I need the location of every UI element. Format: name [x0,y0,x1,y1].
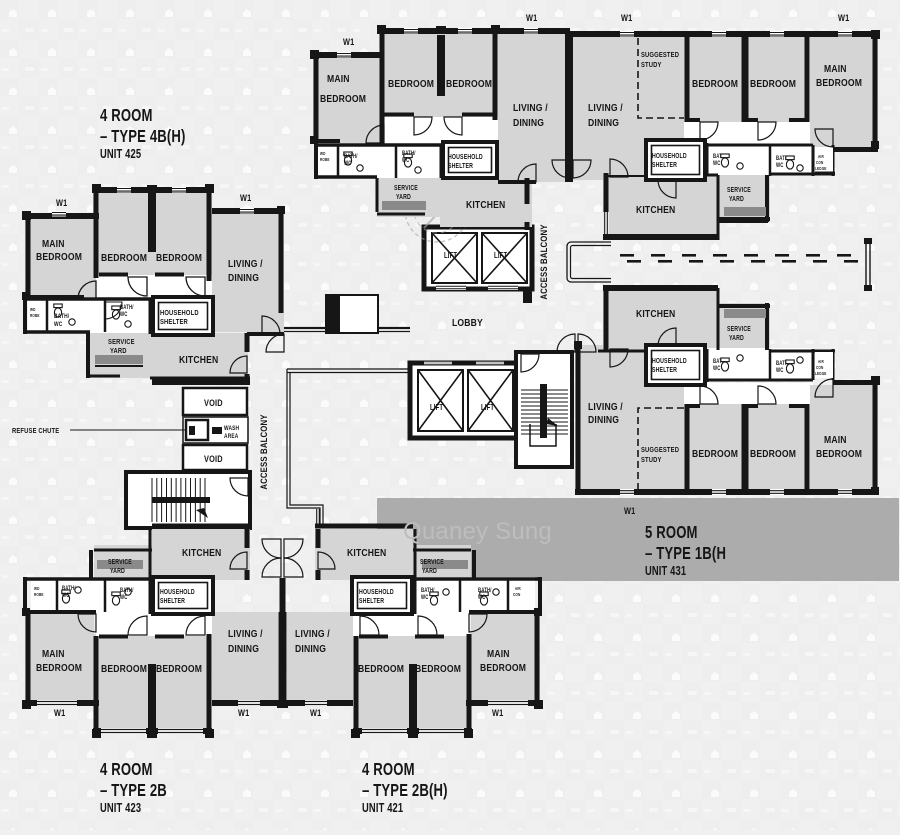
unit 421 washing rack [422,560,468,569]
svg-text:LEDGE: LEDGE [815,370,827,376]
svg-text:STUDY: STUDY [641,61,662,69]
svg-text:KITCHEN: KITCHEN [636,204,675,216]
svg-text:YARD: YARD [422,567,437,575]
svg-text:HOUSEHOLD: HOUSEHOLD [652,152,687,160]
lift block upper [424,227,532,289]
unit 431 living/dining [575,345,684,493]
unit 425 bedroom block [93,187,212,278]
unit R bath fixtures [721,154,729,167]
svg-text:UNIT 423: UNIT 423 [100,802,141,816]
svg-text:BEDROOM: BEDROOM [692,448,738,460]
svg-text:WC: WC [120,311,128,318]
unit T kitchen walls [525,178,530,204]
svg-text:ROBE: ROBE [320,156,330,162]
svg-text:HOUSEHOLD: HOUSEHOLD [359,588,394,596]
unit R closet [815,147,833,173]
access balcony west rail [290,372,323,528]
svg-text:LIFT: LIFT [430,404,444,412]
unit R windows [620,31,634,37]
svg-text:HOUSEHOLD: HOUSEHOLD [448,153,483,161]
svg-text:BEDROOM: BEDROOM [415,663,461,675]
lift block lower [410,363,518,438]
svg-text:W1: W1 [492,708,504,718]
east corridor rail [567,242,611,282]
east corridor end window [866,243,870,285]
unit T main bedroom walls [313,52,382,58]
corridor top wall [284,327,410,329]
unit 421 kitchen door arc [318,552,335,569]
unit 425 washing rack [95,355,143,364]
svg-text:SHELTER: SHELTER [448,162,473,170]
unit 423 bath fixtures [62,590,70,603]
svg-text:SERVICE: SERVICE [420,558,444,566]
unit R washing rack [724,207,766,216]
svg-text:LIFT: LIFT [494,252,508,260]
svg-text:MAIN: MAIN [487,648,510,660]
unit 421 service yard walls [413,549,471,552]
svg-text:BEDROOM: BEDROOM [816,448,862,460]
svg-text:HOUSEHOLD: HOUSEHOLD [160,588,195,596]
unit 431 entry wall [598,350,646,353]
svg-text:SERVICE: SERVICE [727,325,751,333]
svg-text:STUDY: STUDY [641,456,662,464]
svg-text:WC: WC [776,367,784,374]
svg-text:W1: W1 [54,708,66,718]
unit 425 household shelter [153,297,213,335]
unit 431 closet [815,352,833,378]
svg-text:BEDROOM: BEDROOM [36,662,82,674]
svg-text:CON: CON [816,364,823,370]
stair shaft rail [540,384,547,438]
unit 421 entry arcs [284,539,303,558]
unit 431 entry doors [578,334,596,352]
svg-text:DINING: DINING [295,643,326,655]
unit R household shelter [646,140,705,180]
unit 423 service yard walls [94,549,152,552]
unit 421 bath row [413,577,535,614]
unit 423 washing rack [97,560,143,569]
unit T washing rack [382,201,426,210]
svg-text:WC: WC [62,592,70,599]
unit 431 suggested study dashed [638,408,684,490]
unit T service yard [377,178,440,217]
unit 421 bath partitions [353,577,540,581]
svg-text:HOUSEHOLD: HOUSEHOLD [652,357,687,365]
svg-text:WC: WC [120,594,128,601]
svg-text:HOUSEHOLD: HOUSEHOLD [160,309,199,317]
unit T household shelter [443,142,497,178]
unit 425 bedroom door arcs [128,277,147,296]
svg-text:YARD: YARD [729,195,744,203]
svg-text:BEDROOM: BEDROOM [692,78,738,90]
svg-text:KITCHEN: KITCHEN [466,199,505,211]
svg-text:YARD: YARD [110,567,125,575]
unit 421 living walls [284,700,353,706]
unit 421 windows [488,700,528,706]
unit 425 bedroom block walls [93,187,212,193]
unit T bath partitions [316,143,441,147]
unit R door arcs [700,122,718,140]
svg-text:DINING: DINING [228,643,259,655]
unit 423 kitchen door arc [230,552,247,569]
unit 421 main bedroom walls [535,612,540,706]
svg-text:LIVING /: LIVING / [295,628,330,640]
svg-text:WD: WD [320,150,326,156]
unit R entry doors [552,160,570,178]
unit 423 : 4-room type 2B [22,524,285,739]
unit 423 living/dining [212,612,278,703]
unit 423 main bedroom walls [26,612,31,706]
unit T kitchen [440,178,532,227]
stair shaft door arc [521,354,539,372]
svg-text:ACCESS BALCONY: ACCESS BALCONY [258,414,269,489]
unit T bath fixtures [344,152,352,165]
svg-text:MAIN: MAIN [824,63,847,75]
svg-text:BEDROOM: BEDROOM [750,448,796,460]
svg-text:ACCESS BALCONY: ACCESS BALCONY [538,224,549,299]
unit 431 hallway [684,383,813,404]
unit 431 household shelter [646,345,705,385]
unit 425 bath row floor [28,297,153,333]
unit T bedroom block walls [379,28,498,34]
unit R living/dining [573,31,684,180]
svg-text:4 ROOM: 4 ROOM [100,760,153,779]
unit T bath row [316,143,441,178]
unit 423 kitchen [152,529,250,580]
svg-text:DINING: DINING [513,117,544,129]
unit 425 main bedroom [25,213,99,300]
svg-text:ROBE: ROBE [34,591,44,597]
unit T living/dining [498,31,567,182]
unit 421 service yard [413,545,471,580]
svg-text:LOBBY: LOBBY [452,317,483,329]
svg-text:SERVICE: SERVICE [108,338,135,346]
svg-text:WD: WD [34,585,40,591]
unit R bath partitions [707,144,813,147]
svg-text:BEDROOM: BEDROOM [101,252,147,264]
svg-text:W1: W1 [310,708,322,718]
unit 423 door arcs [128,616,147,635]
svg-text:SERVICE: SERVICE [394,184,418,192]
lower staircase block [126,472,250,528]
svg-text:WASH: WASH [224,425,239,432]
svg-text:WC: WC [421,594,429,601]
unit 431 washing rack [724,309,766,318]
unit 423 bath row [31,577,153,614]
unit R wall between bedrooms [685,34,690,122]
svg-text:WC: WC [713,365,721,372]
unit top-right : 5-room [552,13,880,240]
svg-text:CON: CON [513,591,520,597]
unit 421 bedroom block walls [354,636,359,734]
wash area [183,417,248,443]
svg-text:AIR: AIR [818,153,824,159]
svg-text:YARD: YARD [396,193,411,201]
svg-text:AIR: AIR [818,358,824,364]
unit 431 main bedroom [810,385,878,492]
unit T living walls [498,28,570,34]
svg-text:BEDROOM: BEDROOM [156,663,202,675]
unit R bedroom bottoms [687,118,700,122]
svg-text:BATH/: BATH/ [344,153,358,160]
unit T bedroom block [382,28,498,120]
svg-text:UNIT 421: UNIT 421 [362,802,403,816]
svg-text:4 ROOM: 4 ROOM [100,106,153,125]
svg-text:BEDROOM: BEDROOM [358,663,404,675]
staircase rail [152,497,210,503]
unit 421 living/dining [287,612,353,703]
svg-text:SUGGESTED: SUGGESTED [641,446,679,454]
svg-text:SERVICE: SERVICE [108,558,132,566]
unit 423 living walls [212,700,284,706]
svg-text:BEDROOM: BEDROOM [388,78,434,90]
stair shaft lower U [530,424,556,446]
svg-text:KITCHEN: KITCHEN [179,354,218,366]
svg-text:MAIN: MAIN [824,434,847,446]
svg-text:BEDROOM: BEDROOM [156,252,202,264]
unit R bath row [707,143,813,175]
unit R corridor wall [607,175,646,177]
unit 431 : 5-room type 1B(H) [557,285,880,495]
unit 431 service yard [718,303,770,350]
unit R bedroom 2 [745,34,805,122]
svg-text:WC: WC [776,162,784,169]
svg-text:LEDGE: LEDGE [815,165,827,171]
svg-text:MAIN: MAIN [42,238,65,250]
svg-text:BATH/: BATH/ [120,304,134,311]
svg-text:AIR: AIR [515,585,521,591]
lift 4 [468,370,513,431]
svg-text:SHELTER: SHELTER [359,597,384,605]
svg-text:DINING: DINING [588,414,619,426]
unit 425 : 4-room type 4B(H) [22,184,285,385]
unit 425 service yard walls [86,333,90,378]
unit R hallway [684,122,813,143]
svg-text:REFUSE CHUTE: REFUSE CHUTE [12,427,60,435]
svg-text:BEDROOM: BEDROOM [101,663,147,675]
unit 431 bath fixtures [721,358,729,371]
svg-text:WC: WC [713,160,721,167]
unit 423 household shelter [153,577,213,614]
void upper [183,388,247,415]
unit T service yard walls [376,178,379,212]
unit 423 main bedroom [25,612,94,703]
unit 431 kitchen walls [604,288,609,350]
unit 431 bath row [707,348,813,380]
unit 431 bedroom 2 [745,404,805,492]
svg-text:BATH/: BATH/ [120,587,134,594]
unit R right wall [873,34,878,147]
unit 421 door arcs [418,616,437,635]
unit 431 right wall [873,380,878,492]
svg-text:WD: WD [30,306,36,312]
svg-text:BATH/: BATH/ [421,587,435,594]
duct box [326,295,378,333]
svg-text:Quaney Sung: Quaney Sung [403,518,552,545]
svg-text:SUGGESTED: SUGGESTED [641,51,679,59]
unit R kitchen [603,173,718,237]
svg-text:LIVING /: LIVING / [228,628,263,640]
unit 431 windows [620,489,634,495]
svg-text:BEDROOM: BEDROOM [36,251,82,263]
unit 421 bedroom block [354,634,471,734]
svg-text:DINING: DINING [228,272,259,284]
svg-text:LIFT: LIFT [481,404,495,412]
unit 425 kitchen door arc [230,356,247,373]
unit 425 kitchen walls [150,377,250,380]
unit 423 kitchen walls [152,524,250,529]
svg-text:SHELTER: SHELTER [652,161,677,169]
unit 421 kitchen [315,529,413,580]
svg-text:BATH/: BATH/ [62,585,76,592]
unit R suggested study dashed [638,38,684,118]
unit T door arcs [414,117,432,135]
unit 425 kitchen [152,333,248,382]
watermark band [377,498,899,581]
svg-text:BEDROOM: BEDROOM [446,78,492,90]
svg-text:KITCHEN: KITCHEN [347,547,386,559]
svg-text:WC: WC [344,160,352,167]
unit 425 south wall at entry [247,332,284,336]
unit 431 left wall [576,345,581,495]
svg-text:W1: W1 [240,193,252,203]
unit top-centre : 4-room [310,13,573,230]
svg-text:BATH/: BATH/ [402,150,416,157]
unit R bedroom 1 [684,34,745,122]
unit 431 bedroom 1 [684,404,745,492]
unit 421 household shelter [352,577,412,614]
east corridor window ticks [620,254,634,257]
svg-text:LIVING /: LIVING / [588,102,623,114]
unit T windows [337,52,351,58]
unit 425 bath partition walls [25,297,212,301]
svg-text:DINING: DINING [588,117,619,129]
unit 425 living/dining [212,208,284,332]
svg-text:– TYPE 4B(H): – TYPE 4B(H) [100,127,186,146]
unit 425 hallway [96,275,212,298]
svg-text:SHELTER: SHELTER [160,597,185,605]
unit 423 entry arcs [262,539,281,558]
svg-text:WC: WC [54,321,62,328]
unit R kitchen walls [604,173,609,240]
svg-text:VOID: VOID [204,398,223,408]
bottom entry arcs units 423/421 [280,578,286,614]
svg-text:SHELTER: SHELTER [652,366,677,374]
unit 425 bedroom windows [52,211,66,217]
svg-text:W1: W1 [238,708,250,718]
unit 425 entry door arcs [262,316,280,334]
unit 423 bedroom block walls [94,636,99,734]
svg-text:BEDROOM: BEDROOM [320,93,366,105]
unit 423 windows [37,700,77,706]
svg-text:LIVING /: LIVING / [588,401,623,413]
svg-text:– TYPE 2B: – TYPE 2B [100,781,167,800]
unit 423 bedroom block [94,634,211,734]
lift 3 [418,370,463,431]
svg-text:YARD: YARD [110,347,127,355]
unit 431 bottom wall [575,489,878,495]
unit 431 kitchen [603,288,718,350]
svg-text:5 ROOM: 5 ROOM [645,523,698,542]
svg-text:KITCHEN: KITCHEN [182,547,221,559]
svg-text:W1: W1 [526,13,538,23]
svg-text:– TYPE 1B(H: – TYPE 1B(H [645,544,726,563]
svg-text:AREA: AREA [224,433,238,440]
unit R service yard [718,175,770,222]
unit 423 bath partitions [25,577,212,581]
unit R top wall [573,31,878,37]
svg-text:VOID: VOID [204,454,223,464]
svg-text:LIVING /: LIVING / [228,258,263,270]
unit 423 service yard [94,545,152,580]
stair shaft [516,352,572,467]
refuse chute box [186,420,208,440]
svg-text:LIVING /: LIVING / [513,102,548,114]
svg-text:BATH/: BATH/ [478,587,492,594]
unit R main bedroom [810,34,878,147]
unit R service yard bottom [718,221,768,223]
svg-text:SERVICE: SERVICE [727,186,751,194]
svg-text:CON: CON [816,159,823,165]
unit 421 kitchen walls [315,524,413,529]
unit 425 main bedroom walls [25,213,99,219]
svg-text:SHELTER: SHELTER [160,318,188,326]
unit 431 main bedroom top [833,380,878,385]
svg-text:MAIN: MAIN [42,648,65,660]
unit 421 bath fixtures [430,592,438,605]
corridor bottom rail to lobby [287,369,410,373]
svg-text:W1: W1 [621,13,633,23]
svg-text:MAIN: MAIN [327,73,350,85]
svg-text:UNIT 425: UNIT 425 [100,148,141,162]
svg-text:– TYPE 2B(H): – TYPE 2B(H) [362,781,448,800]
svg-text:W1: W1 [838,13,850,23]
svg-text:ROBE: ROBE [30,312,40,318]
svg-text:4 ROOM: 4 ROOM [362,760,415,779]
unit T hallway [384,117,498,145]
unit 421 : 4-room type 2B(H) [280,509,543,738]
svg-text:WC: WC [478,594,486,601]
svg-text:BEDROOM: BEDROOM [816,77,862,89]
svg-text:W1: W1 [343,37,355,47]
unit 431 bath partitions [707,379,813,382]
svg-text:WC: WC [402,157,410,164]
svg-text:BEDROOM: BEDROOM [750,78,796,90]
unit 431 bedroom walls [685,404,690,492]
svg-text:W1: W1 [624,506,636,516]
unit 425 bath fixtures [54,304,62,317]
svg-text:LIFT: LIFT [444,252,458,260]
void lower [183,445,247,470]
unit 425 service yard [88,333,152,378]
svg-text:YARD: YARD [729,334,744,342]
lift 1 [432,233,477,283]
unit T main bedroom [313,52,380,143]
svg-text:BEDROOM: BEDROOM [480,662,526,674]
unit 425 living walls [212,208,284,214]
unit 431 door arcs [700,386,718,404]
lift 2 [482,233,527,283]
unit 423 hallway [96,614,212,636]
svg-text:BATH/: BATH/ [54,313,69,320]
unit 421 hallway [353,614,469,636]
unit 421 main bedroom [471,612,540,703]
stamp watermark circle [405,178,469,242]
svg-text:W1: W1 [56,198,68,208]
svg-text:UNIT 431: UNIT 431 [645,565,686,579]
staircase door arc [230,478,248,496]
svg-text:KITCHEN: KITCHEN [636,308,675,320]
